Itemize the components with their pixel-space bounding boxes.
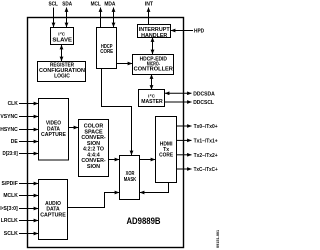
svg-text:SLAVE: SLAVE (52, 38, 72, 44)
svg-text:TxC–/TxC+: TxC–/TxC+ (194, 167, 218, 173)
wire DDCSDA bidirectional (165, 92, 192, 94)
svg-text:SCL: SCL (48, 2, 58, 8)
wire video data capture to color space conversion (69, 127, 79, 129)
wire Tx0 output (177, 125, 192, 127)
svg-text:CORE: CORE (159, 152, 173, 158)
wire interrupt handler to HDCP-EDID microcontroller (bidirectional) (152, 38, 154, 55)
wire SDA bidirectional (66, 8, 68, 28)
svg-text:MDA: MDA (104, 2, 115, 8)
svg-text:LOGIC: LOGIC (54, 74, 70, 80)
wire MCL output (100, 8, 102, 28)
wire CLK input (19, 103, 38, 105)
audio data capture block (39, 180, 68, 240)
svg-text:AD9889B: AD9889B (126, 216, 160, 226)
wire HDCP-EDID microcontroller to I2C master (bidirectional) (151, 75, 153, 90)
register configuration logic block (38, 62, 86, 82)
wire HSYNC input (19, 129, 38, 131)
svg-text:DDCSCL: DDCSCL (193, 100, 215, 106)
HDCP-EDID microcontroller block (133, 55, 174, 75)
wire D[23:0] input (19, 153, 38, 155)
svg-text:Tx0–/Tx0+: Tx0–/Tx0+ (194, 124, 218, 130)
svg-text:DE: DE (11, 139, 19, 145)
wire S/PDIF input (19, 183, 38, 185)
svg-text:SION: SION (87, 164, 100, 170)
XOR mask block (120, 156, 140, 200)
wire Tx2 output (177, 154, 192, 156)
video data capture block (39, 99, 69, 161)
HDCP core block (97, 28, 117, 69)
svg-text:Tx1–/Tx1+: Tx1–/Tx1+ (194, 138, 218, 144)
svg-text:HSYNC: HSYNC (0, 127, 18, 133)
wire TxC output (177, 168, 192, 170)
wire DE input (19, 141, 38, 143)
svg-text:D[23:0]: D[23:0] (3, 151, 19, 157)
wire HDCP core to HDCP-EDID microcontroller (117, 63, 133, 65)
wire SCL input (53, 8, 55, 28)
svg-text:VSYNC: VSYNC (0, 114, 18, 120)
svg-text:MCLK: MCLK (3, 193, 18, 199)
I2C master block (139, 90, 165, 107)
svg-text:LRCLK: LRCLK (1, 218, 18, 224)
svg-text:MCL: MCL (91, 2, 102, 8)
wire audio data capture to XOR mask (68, 193, 120, 208)
svg-text:MASK: MASK (124, 177, 136, 183)
svg-text:S/PDIF: S/PDIF (2, 181, 18, 187)
wire LRCLK input (19, 220, 38, 222)
svg-text:MASTER: MASTER (141, 99, 162, 105)
svg-text:CONTROLLER: CONTROLLER (134, 66, 173, 72)
wire HPD input (171, 30, 193, 32)
wire DDCSCL output (165, 101, 192, 103)
svg-text:SCLK: SCLK (4, 231, 18, 237)
I2C slave block (51, 28, 74, 45)
wire HDMI Tx core to XOR mask (feedback) (140, 183, 169, 193)
svg-text:CORE: CORE (100, 49, 113, 55)
wire I2C slave to register config (bidirectional) (61, 45, 63, 61)
HDMI Tx core block (156, 117, 177, 183)
chip boundary AD9889B (28, 18, 184, 248)
wire HDCP core to XOR mask (102, 69, 132, 156)
svg-text:SDA: SDA (62, 2, 72, 8)
svg-text:I2C: I2C (148, 93, 155, 98)
interrupt handler block (138, 25, 171, 38)
svg-text:09151-001: 09151-001 (216, 230, 220, 248)
wire SCLK input (19, 233, 38, 235)
color space conversion block (79, 120, 109, 177)
wire VSYNC input (19, 116, 38, 118)
wire I2S[3:0] input (19, 208, 38, 210)
wire color space conversion to XOR mask (109, 159, 120, 161)
svg-text:CAPTURE: CAPTURE (41, 132, 66, 138)
svg-text:I2S[3:0]: I2S[3:0] (0, 206, 18, 212)
svg-text:HANDLER: HANDLER (141, 33, 167, 39)
wire MCLK input (19, 195, 38, 197)
svg-text:HPD: HPD (194, 29, 204, 35)
svg-text:I2C: I2C (58, 31, 65, 36)
svg-text:Tx2–/Tx2+: Tx2–/Tx2+ (194, 153, 218, 159)
svg-text:CLK: CLK (8, 101, 18, 107)
svg-text:CAPTURE: CAPTURE (40, 213, 66, 219)
wire MDA bidirectional (113, 8, 115, 28)
wire INT output (148, 8, 150, 25)
wire Tx1 output (177, 139, 192, 141)
svg-text:INT: INT (145, 2, 154, 8)
wire XOR mask to HDMI Tx core (140, 159, 156, 161)
svg-text:DDCSDA: DDCSDA (193, 91, 215, 97)
